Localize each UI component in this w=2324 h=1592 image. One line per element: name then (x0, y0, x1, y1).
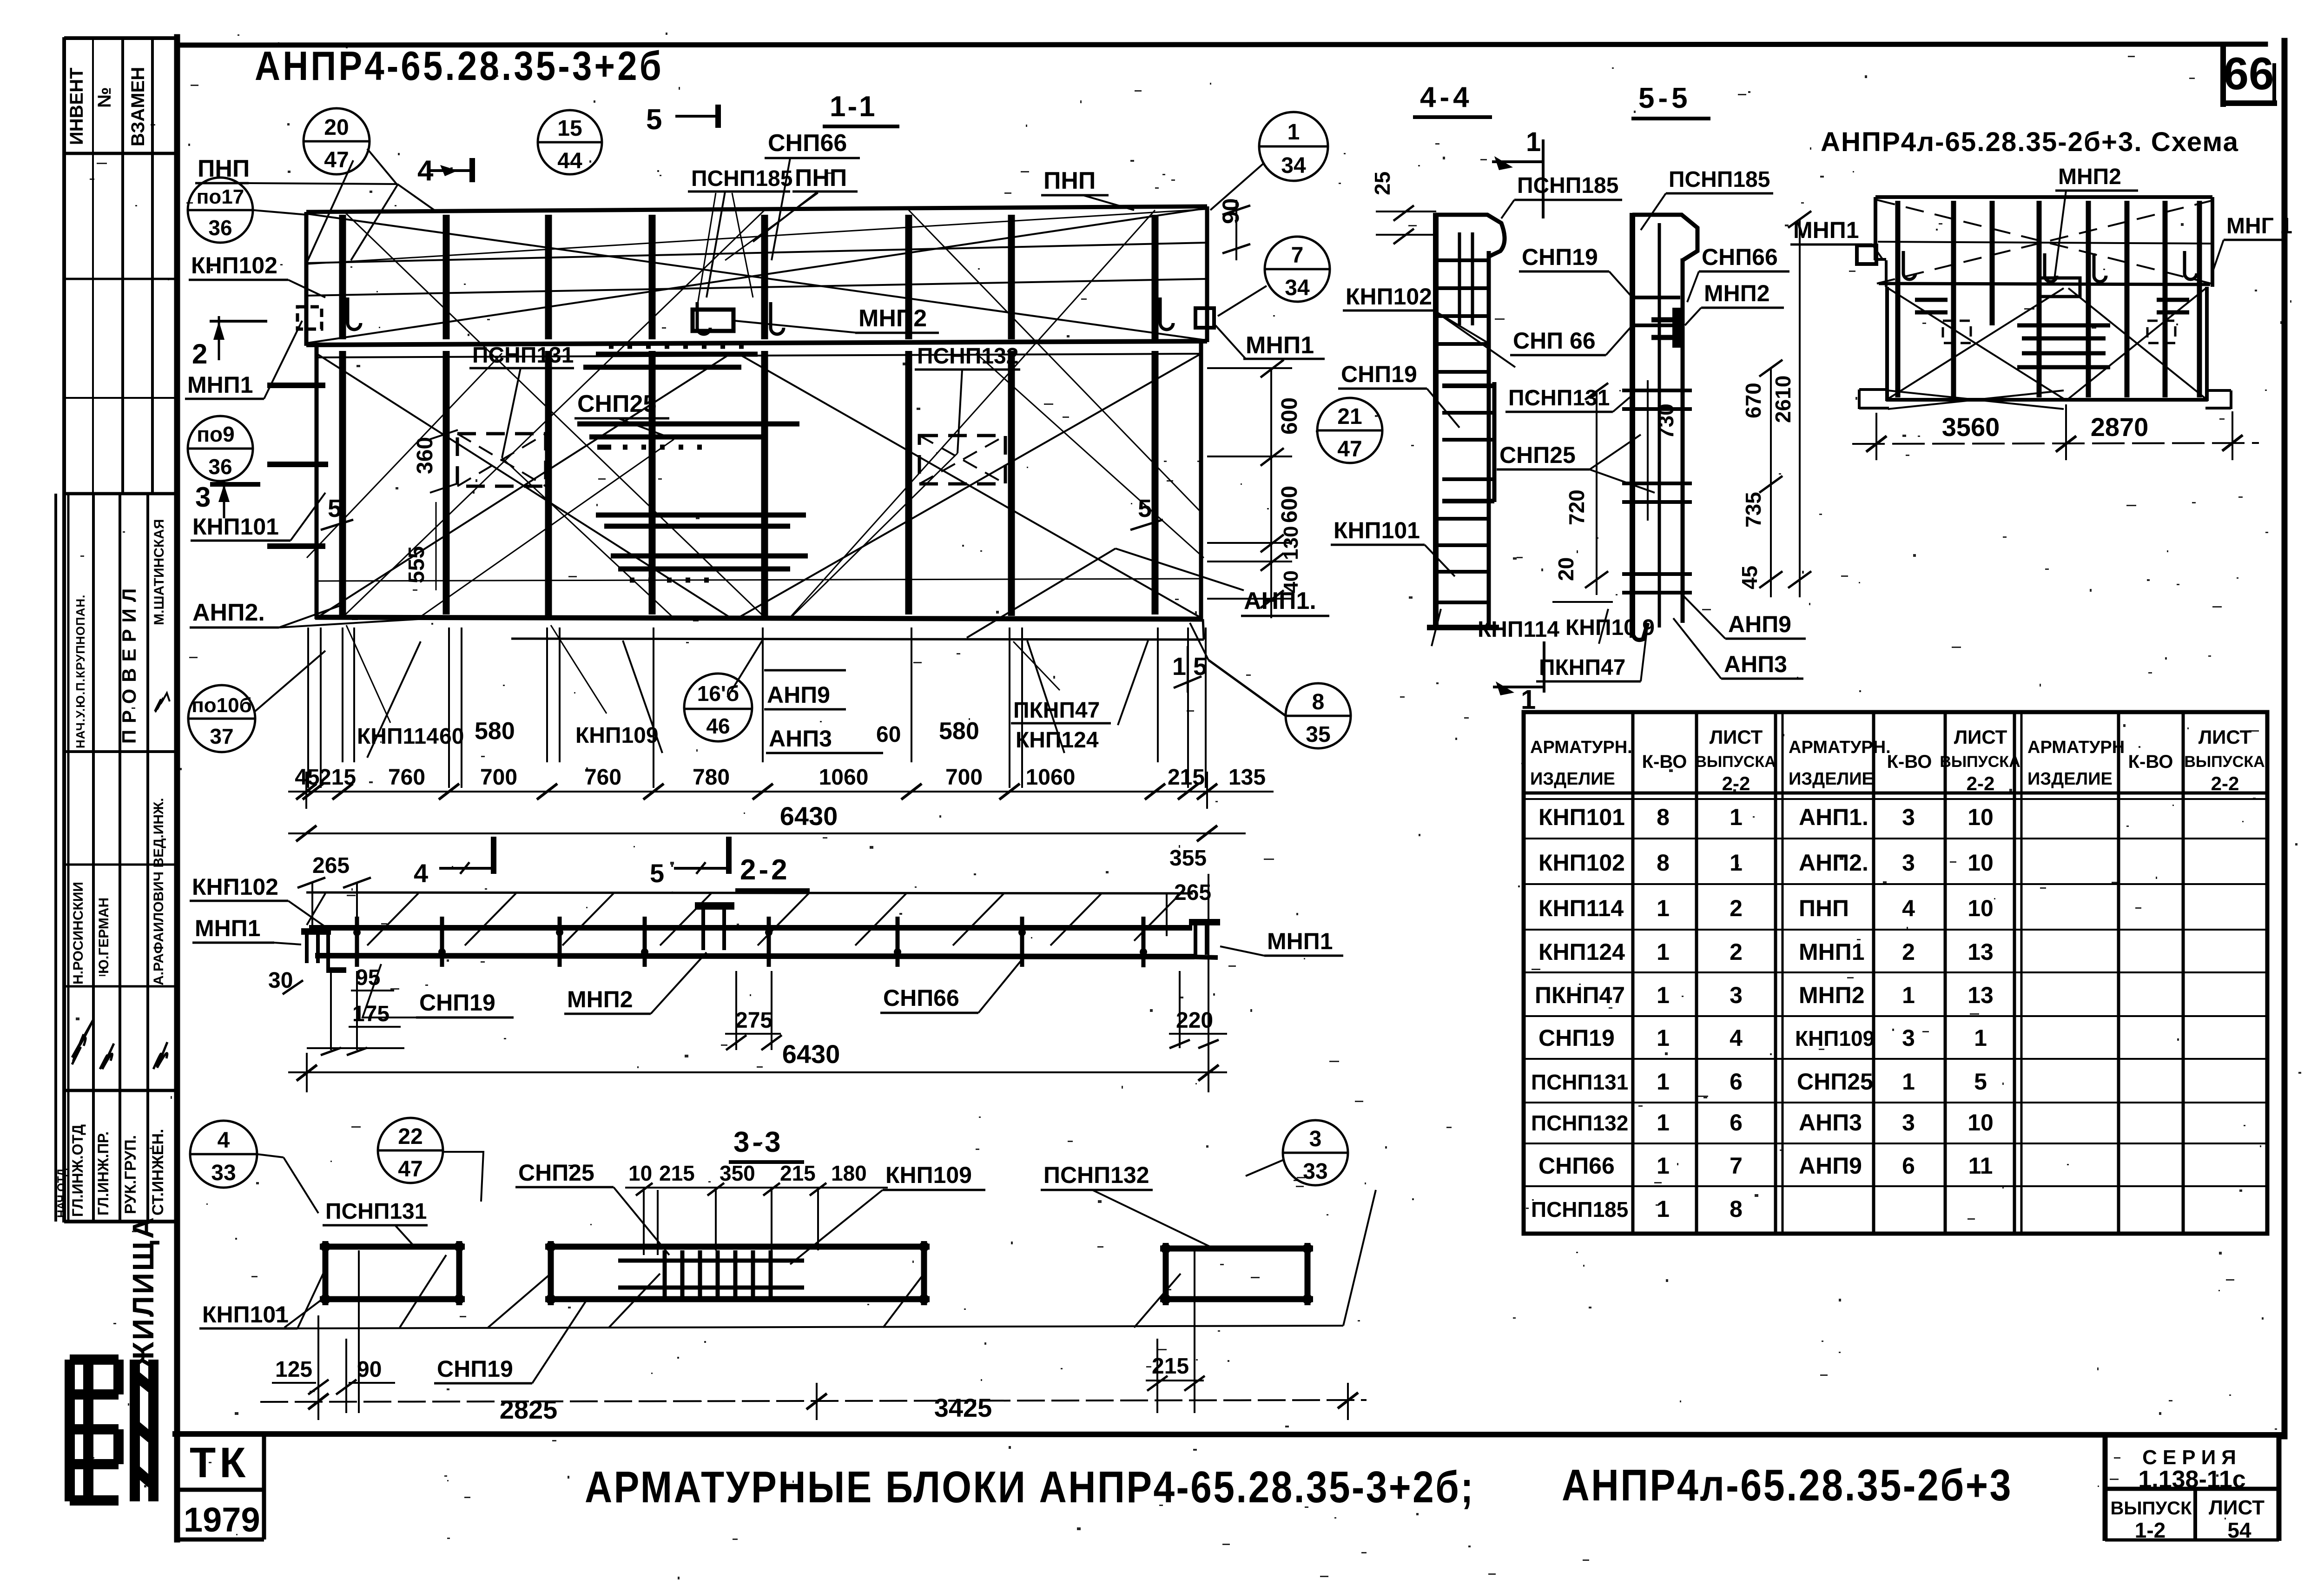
svg-text:130: 130 (1280, 526, 1302, 560)
svg-text:5: 5 (1138, 495, 1152, 522)
svg-text:33: 33 (1303, 1159, 1327, 1184)
svg-text:3: 3 (1902, 1025, 1915, 1051)
svg-text:ВЗАМЕН: ВЗАМЕН (128, 67, 148, 146)
svg-text:10: 10 (1967, 1110, 1994, 1136)
svg-text:ПСНП131: ПСНП131 (472, 343, 574, 368)
svg-text:ПСНП132: ПСНП132 (917, 344, 1018, 369)
svg-text:МНП1: МНП1 (195, 915, 261, 941)
svg-text:АНП2.: АНП2. (192, 599, 265, 626)
svg-text:АНП2.: АНП2. (1799, 850, 1868, 876)
trapezoid leaders (367, 641, 421, 758)
svg-text:КНП102: КНП102 (1346, 284, 1432, 310)
svg-text:3: 3 (195, 482, 211, 513)
svg-text:3425: 3425 (934, 1393, 992, 1422)
svg-text:45: 45 (1737, 566, 1762, 589)
svg-text:16'б: 16'б (697, 681, 739, 706)
svg-text:2-2: 2-2 (1967, 773, 1995, 794)
svg-text:1: 1 (1657, 1025, 1670, 1051)
svg-text:ПКНП47: ПКНП47 (1539, 655, 1625, 680)
svg-text:25: 25 (1370, 172, 1394, 195)
svg-text:ПСНП185: ПСНП185 (691, 166, 792, 191)
svg-text:АРМАТУРН.: АРМАТУРН. (1789, 738, 1891, 757)
svg-text:ПСНП132: ПСНП132 (1531, 1111, 1628, 1135)
table data group 2 names (1795, 804, 1875, 1179)
svg-text:1: 1 (1657, 1110, 1670, 1136)
4-4 lower ladder (1439, 517, 1487, 521)
svg-text:36: 36 (208, 216, 232, 240)
svg-text:ПНП: ПНП (1043, 167, 1096, 194)
svg-text:КНП102: КНП102 (1538, 850, 1625, 876)
svg-text:ЛИСТ: ЛИСТ (2209, 1496, 2265, 1519)
table data group 2 quantities (1902, 804, 1915, 1179)
institute logo block (70, 1360, 153, 1501)
svg-text:13: 13 (1967, 939, 1994, 965)
svg-text:2610: 2610 (1771, 376, 1795, 423)
svg-text:ЛИСТ: ЛИСТ (2199, 726, 2252, 748)
plan band second chord (317, 354, 1201, 357)
svg-text:10: 10 (1967, 895, 1994, 921)
svg-text:К-ВО: К-ВО (1642, 752, 1687, 772)
3-3 ladder insert (618, 1250, 804, 1298)
svg-text:265: 265 (312, 853, 350, 878)
svg-text:8: 8 (1730, 1196, 1743, 1222)
svg-text:СНП 66: СНП 66 (1513, 328, 1596, 354)
svg-text:44: 44 (557, 149, 582, 173)
3-3 bottom dim chain (260, 1383, 1367, 1420)
svg-text:2: 2 (1730, 895, 1743, 921)
2-2 МНП2 table mark (695, 906, 734, 950)
circle 8/35 (1286, 683, 1351, 748)
svg-text:М.ШАТИНСКАЯ: М.ШАТИНСКАЯ (152, 519, 167, 625)
svg-text:АНП3: АНП3 (1799, 1110, 1862, 1136)
frame bottom border (175, 1434, 2284, 1435)
svg-text:АРМАТУРНЫЕ БЛОКИ АНПР4-65.28: АРМАТУРНЫЕ БЛОКИ АНПР4-65.28.35-3+2б; (585, 1462, 1475, 1512)
table data group 1 quantities (1657, 804, 1670, 1222)
svg-text:КНП124: КНП124 (1016, 728, 1099, 753)
schema diagonals (1877, 200, 2211, 409)
svg-text:10: 10 (628, 1161, 652, 1185)
table row lines (1524, 838, 2267, 839)
svg-text:МНП2: МНП2 (567, 986, 633, 1012)
svg-text:6430: 6430 (782, 1039, 840, 1069)
svg-text:К-ВО: К-ВО (2128, 752, 2173, 772)
svg-text:1: 1 (1657, 939, 1670, 965)
svg-text:2: 2 (1902, 939, 1915, 965)
svg-text:33: 33 (211, 1161, 236, 1185)
svg-text:760: 760 (584, 765, 621, 790)
circle 22/47 (378, 1118, 443, 1183)
2-2 tie dots (353, 929, 1147, 956)
2-2 cross ties (357, 917, 1143, 967)
svg-text:37: 37 (210, 724, 233, 748)
stamp lower verticals (67, 494, 70, 1222)
svg-text:СТ.ИНЖЕН.: СТ.ИНЖЕН. (149, 1129, 167, 1216)
extra leader lines crossing plan (307, 193, 1204, 723)
3-3 long datum line (284, 1326, 1343, 1328)
svg-text:МНП1: МНП1 (1246, 332, 1314, 359)
5-5 member body (1622, 213, 1697, 640)
svg-text:47: 47 (1337, 437, 1362, 462)
svg-text:№: № (94, 87, 115, 108)
right dim chain 600/600/130/40 (1270, 367, 1272, 618)
svg-text:1: 1 (1657, 895, 1670, 921)
svg-text:180: 180 (831, 1161, 867, 1185)
svg-text:ЛИСТ: ЛИСТ (1710, 726, 1763, 748)
svg-text:350: 350 (720, 1161, 755, 1185)
plan rebar cluster middle (577, 424, 799, 447)
dim extension verticals below plan (307, 628, 309, 788)
svg-text:4: 4 (1730, 1025, 1743, 1051)
svg-text:АНП1.: АНП1. (1799, 804, 1868, 830)
plan rebar cluster lower (596, 515, 806, 526)
svg-text:НАЧ.У.Ю.П.КРУПНОПАН.: НАЧ.У.Ю.П.КРУПНОПАН. (73, 595, 87, 748)
svg-text:СНП19: СНП19 (1538, 1025, 1615, 1051)
svg-text:МНП1: МНП1 (1793, 217, 1859, 243)
svg-text:СНП19: СНП19 (419, 990, 495, 1016)
svg-text:1: 1 (1657, 1196, 1670, 1222)
4-4 ladder rungs upper (1439, 258, 1487, 262)
svg-text:1: 1 (1287, 120, 1300, 145)
circle 15/44 (538, 110, 602, 174)
svg-text:ПСНП185: ПСНП185 (1531, 1197, 1628, 1222)
svg-text:НАЧ.ОТД.: НАЧ.ОТД. (55, 1165, 68, 1218)
svg-text:КНП101: КНП101 (192, 514, 279, 540)
schema dim chain (1852, 404, 2259, 460)
frame top border (178, 44, 2265, 45)
signature 2 (100, 1044, 114, 1069)
svg-text:3560: 3560 (1942, 412, 2000, 442)
svg-text:355: 355 (1169, 846, 1207, 871)
3-3 leaders to datum (284, 1190, 1376, 1328)
svg-text:СНП66: СНП66 (883, 985, 959, 1011)
schema lower body (1885, 287, 1889, 401)
svg-text:АНП3: АНП3 (769, 726, 832, 752)
svg-text:СНП19: СНП19 (1522, 244, 1598, 270)
dim chain line 1 (288, 772, 1274, 809)
svg-text:2825: 2825 (500, 1395, 558, 1424)
plan top band chords (306, 243, 1207, 263)
svg-text:К-ВО: К-ВО (1887, 752, 1932, 772)
plan long diagonals top band (307, 214, 1206, 340)
svg-text:20: 20 (324, 115, 349, 140)
2-2 right end МНП1 mark (1181, 922, 1220, 958)
dim 90 right of plan (1235, 200, 1237, 260)
svg-text:МНП2: МНП2 (2058, 165, 2121, 189)
svg-text:1979: 1979 (184, 1500, 260, 1539)
schema top band (1859, 197, 2231, 409)
svg-text:35: 35 (1306, 722, 1330, 747)
svg-text:ПСНП185: ПСНП185 (1517, 173, 1618, 198)
svg-text:5-5: 5-5 (1638, 82, 1691, 114)
svg-text:4: 4 (1902, 895, 1915, 921)
svg-text:КНП114: КНП114 (1478, 617, 1559, 642)
svg-text:34: 34 (1285, 276, 1310, 300)
plan dashed opening ПСНП132 (919, 436, 1005, 484)
svg-text:КНП109: КНП109 (885, 1162, 972, 1188)
plan rebar cluster bottom (611, 556, 808, 580)
svg-text:АНП9: АНП9 (1799, 1153, 1862, 1179)
svg-text:735: 735 (1741, 492, 1765, 528)
svg-text:4-4: 4-4 (1420, 81, 1473, 113)
svg-text:1: 1 (1526, 127, 1541, 157)
svg-text:1: 1 (1657, 982, 1670, 1008)
svg-text:КНП124: КНП124 (1538, 939, 1625, 965)
svg-text:2-2: 2-2 (2211, 773, 2239, 794)
svg-text:8: 8 (1657, 804, 1670, 830)
svg-text:ЛИСТ: ЛИСТ (1954, 726, 2007, 748)
svg-text:3: 3 (1902, 1110, 1915, 1136)
circle 20/47 (304, 108, 370, 174)
signature 1 (72, 1020, 93, 1064)
svg-text:8: 8 (1312, 690, 1325, 714)
svg-text:5: 5 (650, 859, 664, 888)
plan lower body diagonals (317, 354, 730, 617)
plan rebar cluster top (СНП25 zone) (583, 346, 758, 367)
svg-text:1060: 1060 (819, 765, 869, 790)
svg-text:по10б: по10б (191, 694, 252, 717)
svg-text:90: 90 (1218, 198, 1244, 224)
svg-text:СНП25: СНП25 (1499, 442, 1576, 468)
svg-text:МНП2: МНП2 (1704, 280, 1770, 306)
svg-text:АНПР4л-65.28.35-2б+3. Схема: АНПР4л-65.28.35-2б+3. Схема (1821, 127, 2239, 157)
svg-text:10: 10 (1967, 804, 1994, 830)
svg-text:МНП2: МНП2 (858, 305, 927, 332)
schema dashed openings (1943, 321, 2175, 343)
svg-text:5: 5 (1974, 1069, 1987, 1095)
svg-text:ВЫПУСКА: ВЫПУСКА (2184, 753, 2265, 771)
svg-text:МНП2: МНП2 (1799, 982, 1865, 1008)
svg-text:760: 760 (388, 765, 425, 790)
svg-text:АРМАТУРН: АРМАТУРН (2027, 738, 2125, 757)
svg-text:780: 780 (693, 765, 730, 790)
svg-text:700: 700 (945, 765, 983, 790)
svg-text:СНП19: СНП19 (1341, 361, 1417, 387)
svg-text:КНП114: КНП114 (357, 724, 439, 749)
stamp outer lines (62, 37, 66, 1222)
circle по17/36 (188, 178, 253, 243)
svg-text:А.РАФАИЛОВИЧ ВЕД.ИНЖ.: А.РАФАИЛОВИЧ ВЕД.ИНЖ. (151, 798, 166, 985)
plan right edge marker box МНП1 (1195, 308, 1214, 328)
svg-text:5: 5 (646, 104, 662, 136)
svg-text:ПНП: ПНП (1799, 895, 1849, 921)
svg-text:2-2: 2-2 (740, 854, 790, 886)
svg-text:1: 1 (1902, 982, 1915, 1008)
svg-text:90: 90 (357, 1357, 382, 1382)
3-3 channel frame 3 (1160, 1243, 1313, 1305)
svg-text:АНП9: АНП9 (1728, 611, 1791, 637)
2-2 hatch diagonals (307, 893, 1181, 945)
svg-text:1: 1 (1657, 1153, 1670, 1179)
svg-text:20: 20 (1554, 557, 1578, 581)
svg-text:Н.РОСИНСКИИ: Н.РОСИНСКИИ (71, 882, 86, 984)
svg-text:22: 22 (398, 1124, 423, 1149)
svg-text:КНП101: КНП101 (1538, 804, 1625, 830)
svg-text:МНП1: МНП1 (187, 372, 253, 398)
svg-text:СНП25: СНП25 (577, 390, 656, 417)
4-4 member body (1427, 213, 1505, 628)
svg-text:7: 7 (1291, 243, 1304, 268)
schema vertical bars (1898, 201, 2199, 397)
2-2 top chord line (306, 892, 1193, 893)
table verticals (1631, 712, 1635, 1234)
svg-text:КНП101: КНП101 (202, 1301, 289, 1328)
circle 21/47 (1317, 398, 1382, 463)
plan left edge marker box МНП1 (297, 307, 322, 329)
2-2 bottom rebar bar (315, 956, 1195, 957)
svg-text:125: 125 (275, 1357, 312, 1382)
frame left border / stamp right edge (174, 37, 180, 1539)
svg-text:АНП3: АНП3 (1724, 651, 1787, 677)
svg-text:ПНП: ПНП (795, 165, 847, 192)
svg-text:ИЗДЕЛИЕ: ИЗДЕЛИЕ (1789, 769, 1874, 789)
svg-text:580: 580 (939, 718, 979, 745)
plan U hooks on bars (348, 297, 1173, 334)
svg-text:2: 2 (1730, 939, 1743, 965)
table data group 1 names (1531, 804, 1628, 1222)
4-4 mid box (1442, 383, 1494, 388)
2-2 top rebar bar (309, 925, 1192, 931)
svg-text:ВЫПУСКА: ВЫПУСКА (1940, 753, 2020, 771)
schema МНП2 tag (2038, 278, 2080, 297)
svg-text:600: 600 (1277, 397, 1302, 435)
svg-text:36: 36 (208, 455, 232, 479)
svg-text:34: 34 (1281, 153, 1306, 178)
svg-text:720: 720 (1565, 489, 1589, 525)
svg-text:ВЫПУСК: ВЫПУСК (2111, 1498, 2192, 1519)
svg-text:2870: 2870 (2091, 412, 2149, 442)
svg-text:Ю.ГЕРМАН: Ю.ГЕРМАН (96, 898, 112, 974)
svg-text:3: 3 (1902, 850, 1915, 876)
svg-text:6: 6 (1902, 1153, 1915, 1179)
circle 7/34 (1265, 237, 1330, 302)
svg-text:1: 1 (1974, 1025, 1987, 1051)
svg-text:60: 60 (876, 722, 901, 747)
svg-text:11: 11 (1968, 1153, 1993, 1179)
plan top band outline (306, 206, 1207, 212)
svg-text:1 5: 1 5 (1172, 653, 1207, 680)
svg-text:МНП1: МНП1 (1799, 939, 1865, 965)
plan lower body outline (315, 345, 319, 619)
svg-text:60: 60 (439, 724, 464, 749)
svg-text:по17: по17 (197, 185, 244, 208)
svg-text:3-3: 3-3 (733, 1126, 784, 1158)
svg-text:АНП9: АНП9 (767, 682, 830, 708)
svg-text:КНП102: КНП102 (191, 252, 277, 278)
table header line (1524, 792, 2267, 795)
svg-text:КНП114: КНП114 (1538, 895, 1624, 921)
3-3 channel frame 1 (320, 1241, 465, 1305)
svg-text:175: 175 (352, 1002, 390, 1026)
table data group 2 sheets (1967, 804, 1994, 1179)
svg-text:5: 5 (328, 495, 342, 522)
svg-text:СНП66: СНП66 (1702, 244, 1778, 270)
svg-text:54: 54 (2227, 1518, 2251, 1542)
svg-text:ТК: ТК (190, 1439, 249, 1486)
svg-text:555: 555 (404, 546, 429, 583)
svg-text:ПКНП47: ПКНП47 (1535, 982, 1625, 1008)
svg-text:МНГ 1: МНГ 1 (2226, 214, 2292, 238)
plan dashed-box diagonals (457, 434, 1005, 486)
svg-text:1-2: 1-2 (2135, 1518, 2166, 1542)
svg-text:47: 47 (398, 1157, 423, 1182)
svg-text:ПСНП185: ПСНП185 (1669, 167, 1770, 192)
plan left protruding bars (267, 385, 328, 546)
svg-text:КНП10 9: КНП10 9 (1565, 615, 1655, 640)
svg-text:ПСНП131: ПСНП131 (325, 1199, 427, 1224)
svg-text:ГЛ.ИНЖ.ОТД: ГЛ.ИНЖ.ОТД (69, 1124, 86, 1217)
svg-text:1: 1 (1730, 850, 1743, 876)
sheet number 66 box (2220, 45, 2226, 104)
svg-text:АНПР4-65.28.35-3+2б: АНПР4-65.28.35-3+2б (255, 43, 664, 89)
svg-text:ГЛ.ИНЖ.ПР.: ГЛ.ИНЖ.ПР. (95, 1131, 112, 1215)
svg-text:6430: 6430 (780, 801, 838, 831)
svg-text:13: 13 (1967, 982, 1994, 1008)
svg-text:3: 3 (1309, 1127, 1322, 1151)
svg-text:215: 215 (659, 1161, 695, 1185)
schema rebar marks middle (1915, 300, 2189, 367)
svg-text:1.138-11с: 1.138-11с (2138, 1466, 2245, 1493)
plan vertical bars (panels) (343, 215, 1155, 616)
plan dashed opening ПСНП131 (457, 434, 546, 486)
svg-text:ИЗДЕЛИЕ: ИЗДЕЛИЕ (2027, 769, 2113, 789)
frame right border (2282, 41, 2288, 1436)
circle 3/33 (1283, 1120, 1348, 1185)
table data group 1 sheets (1730, 804, 1743, 1222)
circle 4/33 (190, 1121, 257, 1188)
svg-text:66: 66 (2223, 48, 2274, 99)
stamp horizontals (64, 152, 177, 155)
svg-text:ИНВЕНТ: ИНВЕНТ (66, 67, 87, 145)
circle 1/34 (1259, 112, 1328, 181)
5-5 МНП2 black mark (1672, 308, 1682, 348)
svg-text:ЖИЛИЩА: ЖИЛИЩА (126, 1215, 160, 1369)
svg-text:АРМАТУРН.: АРМАТУРН. (1530, 738, 1632, 757)
2-2 left end МНП1 mark (301, 931, 346, 971)
circle по10б/37 (188, 685, 255, 752)
schema tag box left (1857, 245, 1876, 264)
svg-text:АНПР4л-65.28.35-2б+3: АНПР4л-65.28.35-2б+3 (1562, 1460, 2013, 1510)
3-3 channel frame 2 with ladder (545, 1241, 930, 1305)
svg-text:670: 670 (1741, 383, 1765, 418)
svg-text:1-1: 1-1 (830, 91, 877, 123)
plan МНП2 tag rectangle (693, 310, 733, 331)
stamp upper verticals (121, 38, 124, 494)
svg-text:220: 220 (1176, 1008, 1213, 1033)
svg-text:СНП25: СНП25 (518, 1160, 594, 1186)
svg-text:ПСНП132: ПСНП132 (1043, 1162, 1149, 1188)
svg-text:2: 2 (192, 338, 207, 370)
svg-text:КНП109: КНП109 (575, 723, 659, 748)
svg-text:275: 275 (735, 1008, 772, 1033)
svg-text:ВЫПУСКА: ВЫПУСКА (1695, 753, 1776, 771)
svg-text:6: 6 (1730, 1069, 1743, 1095)
svg-text:ПСНП131: ПСНП131 (1531, 1070, 1628, 1094)
svg-text:135: 135 (1228, 765, 1266, 790)
svg-text:КНП102: КНП102 (192, 874, 278, 900)
svg-text:215: 215 (1168, 765, 1205, 790)
5-5 rungs (1635, 296, 1680, 299)
svg-text:СЕРИЯ: СЕРИЯ (2142, 1446, 2242, 1469)
svg-text:6: 6 (1730, 1110, 1743, 1136)
svg-text:1060: 1060 (1026, 765, 1076, 790)
svg-text:3: 3 (1730, 982, 1743, 1008)
svg-text:580: 580 (475, 718, 515, 745)
svg-text:1: 1 (1657, 1069, 1670, 1095)
svg-text:РУК.ГРУП.: РУК.ГРУП. (122, 1135, 139, 1214)
svg-text:360: 360 (413, 437, 437, 474)
svg-text:700: 700 (480, 765, 517, 790)
svg-text:АНП1.: АНП1. (1244, 588, 1316, 614)
